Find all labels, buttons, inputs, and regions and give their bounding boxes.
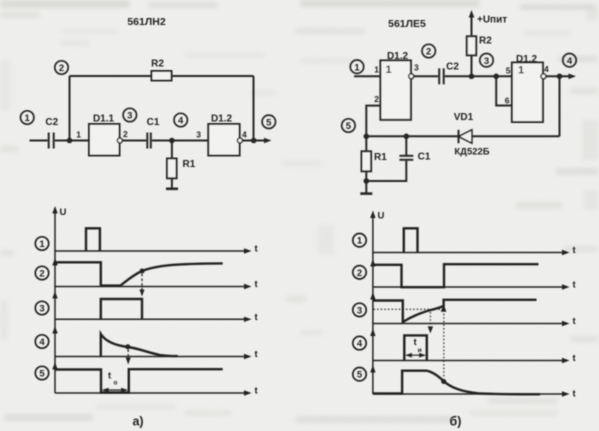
svg-text:4: 4 [567, 56, 573, 67]
trace 4 waveform (a) [101, 334, 178, 357]
svg-text:VD1: VD1 [454, 112, 474, 123]
node 2 (circled) [422, 44, 435, 57]
wire: R2 down to node [471, 55, 473, 76]
wire: C1 top lead [405, 136, 407, 155]
trace 2 waveform (b) [373, 264, 539, 287]
wire: C2 to gate D1.1 [55, 140, 89, 142]
svg-text:C1: C1 [418, 152, 431, 163]
svg-text:5: 5 [357, 370, 363, 381]
caption a) [132, 415, 143, 429]
trace 5 waveform (a) [55, 369, 223, 392]
pin 1 label [76, 130, 81, 140]
junction node at R1 bottom [364, 178, 370, 184]
threshold crossing arrowhead (b) [441, 304, 447, 312]
pin 3 label [196, 130, 201, 140]
pin 5 label [506, 66, 511, 76]
NOR gate U-D1.2a [380, 51, 411, 120]
row circled 4 (b) [353, 336, 366, 349]
axis tick arrows (b) [370, 259, 375, 373]
+Upit supply arrow [469, 10, 508, 36]
node 5 (circled) [262, 115, 275, 128]
svg-text:и: и [418, 347, 422, 354]
NOR gate U-D1.2b [512, 54, 543, 122]
pin 1 label [374, 65, 379, 75]
capacitor C2 [45, 117, 58, 149]
t axis row4 (b) [373, 353, 577, 364]
svg-text:2: 2 [426, 47, 431, 58]
svg-text:1: 1 [357, 236, 363, 247]
D1.1 output bubble [117, 138, 122, 143]
node 5 (circled) [342, 119, 355, 132]
inverter U-D1.2 [208, 114, 239, 156]
node 3 (circled) [123, 108, 136, 121]
node 3 (circled) [480, 54, 493, 67]
node 4 (circled) [563, 54, 576, 67]
U axis (a) [52, 206, 66, 393]
wire: output with arrow [546, 74, 576, 80]
trace 4 pulse (b) [404, 335, 427, 360]
svg-text:3: 3 [39, 304, 44, 315]
junction node at R2 [469, 74, 475, 80]
wire: C1 bottom lead and link to R1 bottom [366, 161, 406, 181]
row circled 4 (a) [35, 335, 48, 348]
svg-text:D1.2: D1.2 [516, 54, 538, 65]
t axis row1 (b) [373, 245, 577, 256]
junction node after C2 [67, 138, 73, 144]
svg-text:1: 1 [39, 239, 45, 250]
inverter U-D1.1 [89, 114, 120, 156]
wire: node up to top rail [69, 76, 71, 141]
svg-text:1: 1 [518, 65, 524, 77]
svg-text:U: U [60, 207, 67, 218]
t axis row2 (b) [373, 280, 577, 291]
svg-text:1: 1 [354, 62, 360, 73]
pin 4 label [242, 130, 247, 140]
row circled 5 (a) [35, 366, 48, 379]
wire: bubble to C2 [414, 75, 438, 77]
row circled 3 (b) [353, 303, 366, 316]
diode VD1 [454, 112, 490, 158]
svg-text:3: 3 [127, 111, 132, 122]
trace 1 pulse (b) [404, 228, 418, 252]
svg-text:+Uпит: +Uпит [477, 15, 507, 26]
svg-text:4: 4 [357, 339, 363, 350]
pin 6 label [505, 96, 510, 106]
svg-text:6: 6 [505, 96, 510, 106]
svg-text:1: 1 [25, 113, 31, 124]
svg-text:2: 2 [357, 268, 362, 279]
trace 4 dot (a) [125, 344, 130, 349]
D1.2 output bubble [237, 138, 242, 143]
resistor R2 [467, 36, 492, 56]
pin 2 wire of gate A [366, 106, 380, 137]
title 561ЛЕ5 [388, 18, 426, 30]
pin 4 label [544, 64, 549, 74]
junction node at pin2/R1 [364, 134, 370, 140]
trace 5 dot (b) [441, 379, 446, 384]
svg-text:C2: C2 [446, 62, 459, 73]
ground [360, 192, 372, 195]
svg-text:U: U [378, 211, 385, 222]
svg-text:2: 2 [59, 63, 64, 74]
gate B output bubble [541, 74, 546, 79]
svg-text:C1: C1 [147, 117, 160, 128]
U axis (b) [370, 211, 384, 395]
t axis row2 (a) [55, 279, 259, 290]
label t_o (a) [108, 371, 118, 387]
trace 3 pulse (a) [101, 299, 142, 319]
row circled 2 (b) [353, 266, 366, 279]
svg-text:561ЛЕ5: 561ЛЕ5 [388, 18, 426, 30]
svg-text:R1: R1 [183, 159, 196, 170]
label t_i (b) [414, 337, 422, 354]
svg-text:1: 1 [374, 65, 379, 75]
wire: C2 to gate B [445, 75, 512, 77]
wire: input to gate pin 1 [354, 75, 380, 77]
wire: input segment [30, 140, 48, 142]
junction node at R1 tap [169, 138, 175, 144]
node 1 (circled) [350, 60, 363, 73]
output junction node [251, 138, 257, 144]
feedback bottom wire right of diode [472, 135, 560, 137]
node 4 (circled) [174, 113, 187, 126]
row circled 1 (b) [353, 234, 366, 247]
trace 3 waveform (b) [373, 300, 537, 322]
pin 3 label [414, 63, 419, 73]
svg-text:D1.2: D1.2 [387, 51, 409, 62]
svg-text:1: 1 [76, 130, 81, 140]
t axis row1 (a) [55, 244, 259, 255]
svg-text:5: 5 [39, 369, 45, 380]
row circled 3 (a) [35, 301, 48, 314]
svg-text:D1.1: D1.1 [93, 114, 115, 125]
t axis row3 (b) [373, 316, 577, 327]
axis tick arrows (a) [52, 258, 57, 370]
wire: down to R1 [365, 136, 367, 151]
svg-text:C2: C2 [45, 117, 58, 128]
svg-text:3: 3 [484, 56, 489, 67]
ground [166, 188, 178, 191]
svg-text:561ЛН2: 561ЛН2 [127, 16, 165, 28]
t axis row3 (a) [55, 312, 259, 323]
svg-text:4: 4 [39, 337, 45, 348]
dashed arrow 2->3 (a) [140, 274, 145, 297]
svg-text:5: 5 [506, 66, 511, 76]
wire: rail down to output node [253, 76, 255, 141]
node 2 (circled) [55, 61, 68, 74]
svg-text:R1: R1 [374, 152, 387, 163]
resistor R1 [167, 159, 196, 179]
wire: top feedback rail [70, 75, 254, 77]
pin 2 label [374, 94, 379, 104]
node 1 (circled) [21, 111, 34, 124]
t axis row4 (a) [55, 349, 259, 360]
svg-text:б): б) [450, 415, 462, 429]
junction node at C1 tap [404, 134, 410, 140]
resistor R1 [362, 151, 388, 171]
gate A output bubble [409, 74, 414, 79]
dotted line crossing to trace 5 dot (b) [443, 310, 445, 379]
dotted drop line to trace 4 (b) [428, 312, 433, 333]
resistor R2 [151, 59, 171, 81]
svg-text:4: 4 [242, 130, 247, 140]
wire: node5 rail [366, 135, 458, 137]
capacitor C1 [147, 117, 160, 149]
t axis row5 (b) [373, 389, 577, 400]
svg-text:5: 5 [346, 121, 352, 132]
svg-text:КД522Б: КД522Б [454, 147, 489, 158]
output junction node [557, 74, 563, 80]
row circled 1 (a) [35, 237, 48, 250]
svg-text:4: 4 [544, 64, 549, 74]
svg-text:D1.2: D1.2 [211, 114, 233, 125]
dashed arrow 4->5 (a) [126, 350, 131, 365]
wire: C1 to gate D1.2 [152, 140, 208, 142]
svg-text:3: 3 [196, 130, 201, 140]
trace 5 waveform (b) [373, 371, 540, 395]
title 561ЛН2 [127, 16, 165, 28]
threshold dotted line (b) [374, 308, 441, 310]
wire: output with arrow [243, 138, 272, 144]
caption b) [450, 415, 462, 429]
svg-text:1: 1 [385, 64, 391, 76]
svg-text:2: 2 [374, 94, 379, 104]
svg-text:2: 2 [123, 129, 128, 139]
junction node at pin5/6 tie [493, 74, 499, 80]
row circled 2 (a) [35, 266, 48, 279]
svg-text:4: 4 [178, 116, 184, 127]
svg-text:R2: R2 [151, 59, 164, 70]
svg-text:R2: R2 [479, 36, 492, 47]
trace 1 pulse (a) [86, 228, 100, 251]
trace 2 dot (a) [140, 269, 145, 274]
capacitor C1 [399, 152, 430, 163]
svg-text:3: 3 [414, 63, 419, 73]
wire: bubble to C1 [122, 140, 146, 142]
capacitor C2 [439, 62, 459, 85]
wire: R1 to ground [171, 178, 173, 188]
pin 2 label [123, 129, 128, 139]
pin 6 tie wire [496, 76, 512, 105]
feedback wire from output node down [559, 76, 561, 136]
row circled 5 (b) [353, 368, 366, 381]
pulse width measure arrows (b) [405, 353, 426, 358]
svg-text:5: 5 [266, 118, 272, 129]
svg-text:а): а) [132, 415, 143, 429]
trace 2 waveform (a) [55, 262, 223, 285]
svg-text:o: o [114, 380, 118, 387]
svg-text:3: 3 [357, 305, 362, 316]
wire: node down to R1 [171, 141, 173, 159]
svg-text:2: 2 [39, 269, 44, 280]
pulse width measure arrows (a) [102, 388, 128, 393]
t axis row5 (a) [55, 386, 259, 397]
wire: R1 to bottom node [365, 171, 367, 193]
